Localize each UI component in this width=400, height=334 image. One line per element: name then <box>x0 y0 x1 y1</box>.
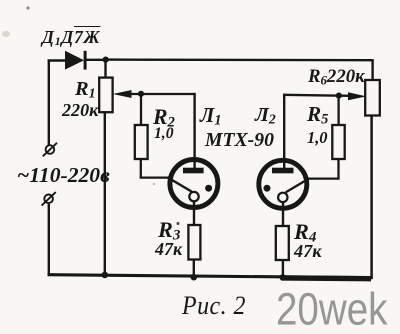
wire R2 top lead <box>140 94 142 126</box>
watermark 20wek <box>276 287 387 332</box>
terminal bottom (slashed circle) <box>42 192 56 206</box>
scan dust left edge <box>2 31 10 37</box>
junction dot R5 top <box>336 93 342 99</box>
tube L1 envelope <box>170 160 218 208</box>
tube L1 anode bar <box>183 168 204 174</box>
wire R5 bottom lead to starter of L2 <box>307 159 340 179</box>
scan speck top-left <box>26 6 29 9</box>
label R4 <box>294 221 316 245</box>
resistor R5 body <box>332 125 344 159</box>
scan speck right of R3 label <box>177 222 180 225</box>
diode D1 (Д1 Д7Ж) <box>65 51 87 70</box>
label R5 <box>307 104 328 127</box>
tube L2 gas dot <box>264 185 271 192</box>
label 1,0 (R5 value) <box>307 130 328 146</box>
scan speck left of mains label <box>153 183 155 185</box>
wire left vertical upper <box>48 60 50 146</box>
label L2 <box>255 105 276 126</box>
wire L2 anode lead <box>283 94 285 169</box>
wire bottom rail <box>48 275 373 278</box>
tube L2 starter electrode <box>286 178 310 192</box>
wire right rail (R6 bottom to bottom rail) <box>370 116 373 279</box>
wire left vertical lower (bottom terminal to rail) <box>48 204 50 276</box>
resistor R4 body <box>276 226 289 260</box>
wire top rail <box>106 58 373 61</box>
wire top-left horizontal <box>48 59 67 61</box>
tube L1 starter electrode <box>168 177 192 191</box>
wire L1 cathode lead <box>193 201 195 226</box>
label R1 <box>75 79 96 101</box>
wire top-right corner down to R6 <box>371 59 373 81</box>
R1 wiper arrow <box>113 90 195 98</box>
wire R1 top lead <box>104 60 106 78</box>
tube L2 cathode circle <box>278 193 287 202</box>
terminal top (slashed circle) <box>43 143 57 157</box>
wire diode cathode to node A <box>86 59 106 61</box>
label R6 220k <box>308 68 365 87</box>
label D1 Д7Ж <box>42 29 100 48</box>
node A junction dot (top of R1) <box>103 57 109 63</box>
resistor R6 body <box>365 80 380 116</box>
resistor R3 body <box>188 225 200 260</box>
resistor R1 body (potentiometer) <box>99 78 112 113</box>
wire R1 bottom lead <box>104 112 106 276</box>
resistor R2 body <box>135 125 148 159</box>
wire L2 cathode lead <box>282 202 284 227</box>
junction dot R1 bottom <box>102 272 109 279</box>
caption Fig. 2 <box>182 293 246 319</box>
wire bottom rail thick right segment <box>283 275 371 281</box>
junction dot R4 bottom <box>280 274 287 281</box>
R6 wiper arrow head <box>348 92 366 100</box>
label 220k (R1 value) <box>62 101 98 119</box>
tube L2 anode bar <box>272 168 294 174</box>
label 47k (R4 value) <box>294 242 322 260</box>
wire right wiper rail (L2 anode to R6 arrow) <box>283 95 350 96</box>
label 1,0 (R2 value) <box>154 126 174 142</box>
tube L2 envelope <box>259 160 307 208</box>
junction dot R2 top <box>138 91 144 97</box>
wire R3 bottom lead <box>193 260 195 279</box>
label R2 <box>153 107 175 130</box>
label L1 <box>200 105 221 128</box>
label MTX-90 <box>205 131 274 151</box>
label ~110-220v (mains) <box>17 165 110 187</box>
tube L1 cathode circle <box>189 192 198 201</box>
junction dot R3 bottom <box>191 274 198 281</box>
label R3 <box>158 219 180 244</box>
wire L1 anode lead <box>193 93 195 169</box>
wire R4 bottom lead <box>282 260 284 279</box>
wire R5 top lead <box>337 96 339 126</box>
wire R2 bottom lead to starter of L1 <box>140 159 170 178</box>
tube L1 gas dot <box>205 185 212 192</box>
label 47k (R3 value) <box>155 240 182 258</box>
